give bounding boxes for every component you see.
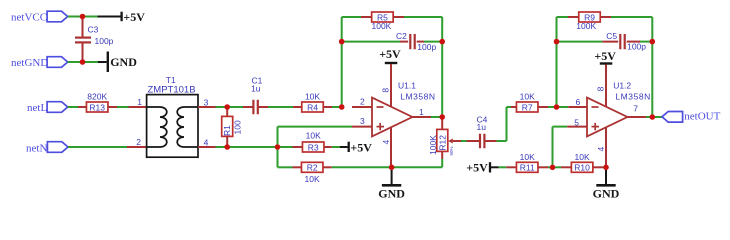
wire R3 left lead bbox=[293, 146, 303, 148]
transformer T1 body bbox=[147, 95, 198, 158]
svg-text:R4: R4 bbox=[307, 102, 318, 112]
svg-text:+5V: +5V bbox=[123, 10, 145, 24]
svg-text:R7: R7 bbox=[522, 102, 533, 112]
svg-text:C3: C3 bbox=[88, 25, 99, 35]
wire T1 pin4 lead bbox=[198, 146, 216, 148]
wire pin3-node bbox=[216, 106, 244, 108]
junction C2 right bbox=[439, 39, 445, 45]
wire pin5 row bbox=[553, 126, 568, 128]
power +5V (R11) bbox=[466, 160, 490, 174]
wire U1.2 pin6 lead bbox=[568, 106, 587, 108]
wire U1.1 pin4 lead bbox=[390, 127, 392, 167]
wire U1.2 pin4 lead bbox=[605, 127, 607, 167]
wire netVCC bbox=[68, 16, 98, 18]
wire R9 to right vertical bbox=[611, 16, 652, 18]
svg-text:100: 100 bbox=[233, 120, 243, 134]
port netOUT bbox=[662, 112, 683, 123]
svg-text:R2: R2 bbox=[307, 163, 318, 173]
ground GND (netGND) bbox=[108, 52, 137, 73]
wire R11 left lead bbox=[506, 166, 516, 168]
resistor R3 bbox=[302, 131, 324, 153]
wire U1.2 pin5 lead bbox=[567, 126, 587, 128]
svg-text:100p: 100p bbox=[627, 42, 646, 52]
wire C3 top lead bbox=[82, 17, 84, 38]
svg-text:1u: 1u bbox=[477, 122, 487, 132]
wire C4 left lead bbox=[467, 140, 480, 142]
op-amp U1.1 minus mark bbox=[377, 106, 384, 108]
svg-text:GND: GND bbox=[378, 186, 405, 200]
svg-text:10K: 10K bbox=[305, 92, 320, 102]
junction op-amp pin2 node bbox=[339, 104, 345, 110]
wire output-netOUT bbox=[652, 116, 662, 118]
svg-text:netVCC: netVCC bbox=[11, 12, 47, 24]
wire C2 row right bbox=[424, 41, 442, 43]
svg-text:1u: 1u bbox=[251, 84, 261, 94]
wire R5 to right vertical bbox=[404, 16, 442, 18]
junction U1.1 pin4/GND bbox=[389, 165, 395, 171]
wire C2 row left bbox=[342, 41, 400, 43]
svg-text:+5V: +5V bbox=[379, 47, 401, 61]
resistor R4 bbox=[302, 92, 324, 113]
svg-text:netOUT: netOUT bbox=[684, 111, 720, 123]
junction netGND/C3 bbox=[80, 59, 86, 65]
svg-text:1: 1 bbox=[137, 97, 142, 107]
wire U1.1 pin8 lead bbox=[390, 64, 392, 106]
wire C2 left lead bbox=[400, 41, 408, 43]
junction netVCC/C3 bbox=[80, 14, 86, 20]
junction R1 top bbox=[224, 104, 230, 110]
svg-text:GND: GND bbox=[593, 186, 620, 200]
wire R7-pin6 node bbox=[548, 106, 568, 108]
svg-text:+5V: +5V bbox=[594, 49, 616, 63]
wire bias vertical bbox=[277, 127, 279, 168]
svg-text:10K: 10K bbox=[575, 152, 590, 162]
wire GND lead bbox=[98, 61, 107, 63]
wire C1 right lead bbox=[258, 106, 268, 108]
capacitor C1 bbox=[253, 100, 257, 115]
port netVCC bbox=[47, 11, 68, 22]
resistor R9 bbox=[579, 12, 601, 22]
op-amp U1.1 body bbox=[372, 98, 412, 137]
wire C4 right lead bbox=[484, 140, 496, 142]
trimmer R12 wiper arrow bbox=[448, 139, 453, 144]
op-amp U1.2 minus mark bbox=[592, 106, 599, 108]
junction C5 right bbox=[650, 39, 656, 45]
wire U1.1 output lead bbox=[412, 116, 431, 118]
wire C5 right lead bbox=[627, 41, 640, 43]
junction pin5/R11/R10 bbox=[550, 165, 556, 171]
svg-text:10K: 10K bbox=[306, 131, 321, 141]
svg-text:2: 2 bbox=[360, 96, 365, 106]
svg-text:4: 4 bbox=[381, 140, 391, 145]
svg-text:U1.2: U1.2 bbox=[613, 81, 631, 91]
svg-text:+5V: +5V bbox=[350, 140, 372, 154]
capacitor C4 bbox=[480, 134, 484, 149]
svg-text:3: 3 bbox=[360, 116, 365, 126]
wire +5V lead (R3) bbox=[340, 146, 348, 148]
svg-text:C2: C2 bbox=[396, 31, 407, 41]
svg-text:3: 3 bbox=[204, 97, 209, 107]
svg-text:LM358N: LM358N bbox=[615, 92, 650, 102]
svg-text:LM358N: LM358N bbox=[400, 92, 435, 102]
wire R13 left lead bbox=[78, 106, 87, 108]
svg-text:100K: 100K bbox=[372, 21, 392, 31]
wire C3 bottom lead bbox=[82, 43, 84, 62]
wire +5V lead bbox=[98, 16, 121, 18]
wire R7 left lead bbox=[511, 106, 516, 108]
svg-text:4: 4 bbox=[596, 147, 606, 152]
wire feedback left vertical (U1.1) bbox=[341, 17, 343, 107]
svg-text:R10: R10 bbox=[574, 163, 590, 173]
svg-text:1: 1 bbox=[419, 107, 424, 117]
wire node-R3 bbox=[278, 146, 293, 148]
wire R3 right lead bbox=[324, 146, 332, 148]
ground GND (U1.1) bbox=[378, 169, 405, 201]
wire to R9 bbox=[557, 16, 569, 18]
svg-text:4: 4 bbox=[204, 137, 209, 147]
svg-text:R3: R3 bbox=[308, 142, 319, 152]
wire R12-GND row bbox=[441, 159, 443, 167]
wire netGND bbox=[68, 61, 98, 63]
wire netL-R13 bbox=[68, 106, 78, 108]
wire U1.1 pin3 lead bbox=[352, 126, 372, 128]
wire R12 bottom lead bbox=[441, 151, 443, 159]
wire U1.2 pin8 lead bbox=[605, 65, 607, 107]
op-amp U1.2 body bbox=[587, 98, 627, 137]
svg-text:6: 6 bbox=[576, 97, 581, 107]
wire T1 pin1 lead bbox=[129, 106, 147, 108]
wire +5V-R11 bbox=[499, 166, 507, 168]
junction U1.2 output bbox=[650, 114, 656, 120]
power +5V (U1.1 pin8) bbox=[379, 47, 401, 63]
wire R3-+5V bbox=[332, 146, 340, 148]
wire feedback right vertical (U1.2) bbox=[651, 17, 653, 117]
junction R1 bottom bbox=[224, 144, 230, 150]
op-amp U1.2 plus mark bbox=[592, 123, 600, 130]
wire node-R2 bbox=[278, 166, 293, 168]
resistor R10 bbox=[571, 152, 593, 173]
svg-text:10K: 10K bbox=[520, 92, 535, 102]
wire R12 top lead bbox=[441, 117, 443, 129]
resistor R7 bbox=[516, 92, 538, 113]
junction C2 left bbox=[339, 39, 345, 45]
wire wiper-C4 red bbox=[453, 140, 461, 142]
junction op-amp pin6 node bbox=[554, 104, 560, 110]
wire R5 left lead bbox=[361, 16, 372, 18]
wire U1.1 pin2 lead bbox=[352, 106, 372, 108]
svg-text:netL: netL bbox=[27, 102, 47, 114]
svg-text:100K: 100K bbox=[576, 21, 596, 31]
svg-text:C5: C5 bbox=[606, 31, 617, 41]
svg-text:+5V: +5V bbox=[466, 160, 488, 174]
wire C1 left lead bbox=[243, 106, 253, 108]
svg-text:10K: 10K bbox=[520, 152, 535, 162]
svg-text:GND: GND bbox=[110, 55, 137, 69]
svg-text:netN: netN bbox=[26, 142, 47, 154]
wire C1-R4 bbox=[268, 106, 293, 108]
wire R13-T1 bbox=[117, 106, 129, 108]
wire R11-node bbox=[548, 166, 553, 168]
junction C5 left bbox=[554, 39, 560, 45]
svg-text:10K: 10K bbox=[305, 174, 320, 184]
svg-text:R11: R11 bbox=[520, 163, 535, 173]
wire +5V lead (R11) bbox=[491, 166, 499, 168]
power +5V (U1.2 pin8) bbox=[594, 49, 616, 64]
wire pin3 row bbox=[278, 126, 353, 128]
wire R13 right lead bbox=[108, 106, 117, 108]
wire R2-GND row bbox=[332, 166, 392, 168]
port netN bbox=[47, 142, 68, 153]
wire R10 left lead bbox=[561, 166, 571, 168]
trimmer R12 bbox=[428, 129, 454, 155]
wire U1.2 output lead bbox=[627, 116, 646, 118]
wire GND row-R12 bbox=[392, 166, 443, 168]
wire R10-pin4 node bbox=[603, 166, 606, 168]
wire R4 left lead bbox=[293, 106, 302, 108]
power +5V (netVCC) bbox=[122, 10, 146, 24]
wire C5 row right bbox=[640, 41, 652, 43]
svg-text:100p: 100p bbox=[417, 42, 436, 52]
svg-text:5: 5 bbox=[574, 118, 579, 128]
svg-text:2: 2 bbox=[136, 137, 141, 147]
svg-text:R12: R12 bbox=[437, 135, 447, 151]
wire C5 row left bbox=[557, 41, 603, 43]
resistor R5 bbox=[372, 12, 394, 22]
svg-text:7: 7 bbox=[633, 104, 638, 114]
svg-text:50%: 50% bbox=[449, 146, 454, 155]
junction U1.2 pin4/GND bbox=[603, 165, 609, 171]
wire feedback right vertical (U1.1) bbox=[441, 17, 443, 117]
wire R9 left lead bbox=[568, 16, 579, 18]
svg-text:100K: 100K bbox=[428, 135, 438, 155]
wire pin4 row bbox=[216, 146, 278, 148]
svg-text:8: 8 bbox=[596, 86, 606, 91]
resistor R1 bbox=[222, 116, 243, 136]
wire R7 right lead bbox=[538, 106, 548, 108]
wire feedback left vertical (U1.2) bbox=[556, 17, 558, 107]
svg-text:820K: 820K bbox=[87, 92, 107, 102]
capacitor C5 bbox=[620, 34, 624, 49]
svg-text:8: 8 bbox=[381, 88, 391, 93]
transformer T1 secondary winding bbox=[177, 107, 197, 147]
svg-text:netGND: netGND bbox=[11, 57, 48, 69]
wire vertical to R7 bbox=[506, 107, 508, 141]
wire R4-pin2 node bbox=[332, 106, 342, 108]
resistor R11 bbox=[516, 152, 538, 173]
op-amp U1.1 plus mark bbox=[377, 123, 385, 130]
wire R5 right lead bbox=[393, 16, 404, 18]
wire R10 right lead bbox=[593, 166, 603, 168]
wire R2 left lead bbox=[293, 166, 302, 168]
capacitor C2 bbox=[410, 34, 414, 49]
wire T1 pin2 lead bbox=[127, 146, 147, 148]
transformer T1 primary winding bbox=[147, 107, 167, 147]
power +5V (R3) bbox=[349, 140, 373, 154]
port netL bbox=[47, 102, 68, 113]
svg-text:R13: R13 bbox=[89, 102, 105, 112]
wire node-R10 bbox=[553, 166, 562, 168]
wire output-node (U1.2) bbox=[646, 116, 652, 118]
resistor R13 bbox=[86, 92, 108, 113]
wire R1 bottom lead bbox=[226, 136, 228, 147]
ground GND (U1.2) bbox=[593, 169, 620, 201]
wire corner-R7 bbox=[507, 106, 512, 108]
wire to R5 bbox=[342, 16, 361, 18]
svg-text:R1: R1 bbox=[222, 125, 232, 136]
wire pin5 vertical bbox=[552, 127, 554, 168]
wire netN-T1 bbox=[68, 146, 127, 148]
svg-text:100p: 100p bbox=[95, 36, 114, 46]
wire T1 pin3 lead bbox=[198, 106, 216, 108]
wire R1 top lead bbox=[226, 107, 228, 116]
wire R4 right lead bbox=[323, 106, 332, 108]
wire C5 left lead bbox=[602, 41, 618, 43]
svg-text:U1.1: U1.1 bbox=[398, 81, 416, 91]
wire R2 right lead bbox=[323, 166, 332, 168]
junction U1.1 output bbox=[439, 114, 445, 120]
capacitor C3 bbox=[75, 38, 91, 43]
wire C4-corner bbox=[497, 140, 507, 142]
wire C2 right lead bbox=[417, 41, 424, 43]
wire output-node bbox=[431, 116, 442, 118]
wire wiper-C4 green bbox=[461, 140, 467, 142]
wire R11 right lead bbox=[538, 166, 548, 168]
resistor R2 bbox=[301, 162, 323, 172]
wire R9 right lead bbox=[600, 16, 611, 18]
junction bias node bbox=[275, 144, 281, 150]
port netGND bbox=[47, 57, 68, 68]
